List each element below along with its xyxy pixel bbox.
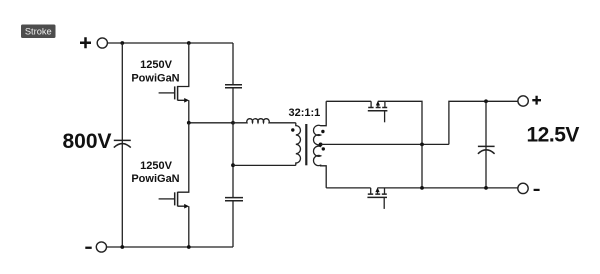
label - (output negative) xyxy=(534,189,540,191)
transistor Q2 gate lead xyxy=(159,198,174,200)
terminal input - xyxy=(96,242,106,252)
wire top rail xyxy=(108,42,233,44)
node divider / primary return xyxy=(231,163,235,167)
node bottom rail / vertical link xyxy=(420,186,424,190)
node bottom rail / left rail xyxy=(120,245,124,249)
transformer T1 secondary bottom winding xyxy=(313,144,326,188)
capacitor C1 input bus xyxy=(114,140,131,147)
wire switch node xyxy=(189,122,233,124)
badge Stroke xyxy=(21,25,56,39)
svg-text:12.5V: 12.5V xyxy=(527,124,580,147)
label - (input negative) xyxy=(85,247,91,249)
label 1250V PowiGaN (Q1) xyxy=(131,59,179,85)
wire secondary top rail right xyxy=(378,101,422,144)
transformer core xyxy=(305,124,307,165)
capacitor C3 divider bottom xyxy=(225,198,243,201)
svg-text:800V: 800V xyxy=(63,130,112,153)
node switch / divider xyxy=(231,121,235,125)
node top rail / left rail xyxy=(120,41,124,45)
svg-text:PowiGaN: PowiGaN xyxy=(131,173,179,185)
transistor Q2 source lead xyxy=(178,206,189,247)
svg-text:1250V: 1250V xyxy=(140,59,172,71)
label 1250V PowiGaN (Q2) xyxy=(131,160,179,185)
transistor Q1 gate lead xyxy=(159,92,174,94)
label + (output positive) xyxy=(532,96,541,105)
wire divider column upper xyxy=(232,43,234,84)
node center tap xyxy=(319,143,323,147)
svg-text:Stroke: Stroke xyxy=(25,26,52,36)
terminal output + xyxy=(518,96,528,106)
transistor Q1 gate bar xyxy=(174,86,176,99)
wire left rail lower xyxy=(121,144,123,247)
wire left rail upper xyxy=(121,43,123,144)
wire divider column middle xyxy=(232,88,234,197)
node center rail / vertical link xyxy=(420,143,424,147)
transistor Q1 channel bar xyxy=(177,86,179,101)
transformer T1 secondary top winding xyxy=(313,101,326,145)
terminal output - xyxy=(518,183,528,193)
wire bottom rail xyxy=(107,246,233,248)
svg-text:1250V: 1250V xyxy=(140,160,172,172)
capacitor C2 divider top xyxy=(225,85,242,88)
transistor Q1 source lead xyxy=(178,100,189,123)
phase dot secondary bottom xyxy=(322,147,325,150)
svg-text:PowiGaN: PowiGaN xyxy=(131,73,179,85)
node top rail / Q1 drain xyxy=(187,41,191,45)
transistor Q2 channel bar xyxy=(177,192,179,207)
wire secondary bottom rail right xyxy=(378,187,518,189)
transistor Q3 SR top xyxy=(368,101,388,123)
transistor Q2 drain lead xyxy=(178,123,189,192)
transistor Q4 SR bottom xyxy=(367,187,387,209)
wire secondary top rail left xyxy=(326,100,371,102)
wire center tap rail xyxy=(321,143,449,145)
node bottom rail / cap xyxy=(484,186,488,190)
node output + / cap xyxy=(484,99,488,103)
capacitor C4 output xyxy=(478,101,495,188)
node switch / Q1 source xyxy=(187,121,191,125)
svg-text:32:1:1: 32:1:1 xyxy=(289,107,321,119)
transistor Q2 gate bar xyxy=(174,192,176,205)
transistor Q2 source arrow xyxy=(184,204,189,209)
phase dot primary xyxy=(291,128,294,131)
wire divider column lower xyxy=(232,201,234,247)
wire secondary bottom rail left xyxy=(326,187,371,189)
wire output riser xyxy=(449,101,518,144)
inductor Lr resonant xyxy=(234,119,296,123)
wire vertical link down xyxy=(421,144,423,188)
transformer T1 primary winding xyxy=(296,123,301,166)
terminal input + xyxy=(97,38,107,48)
phase dot secondary top xyxy=(321,130,324,133)
wire primary return xyxy=(233,164,296,166)
transistor Q1 source arrow xyxy=(184,98,189,103)
transistor Q1 drain lead xyxy=(178,43,189,87)
label + (input positive) xyxy=(80,37,91,48)
node bottom rail / Q2 source xyxy=(187,245,191,249)
